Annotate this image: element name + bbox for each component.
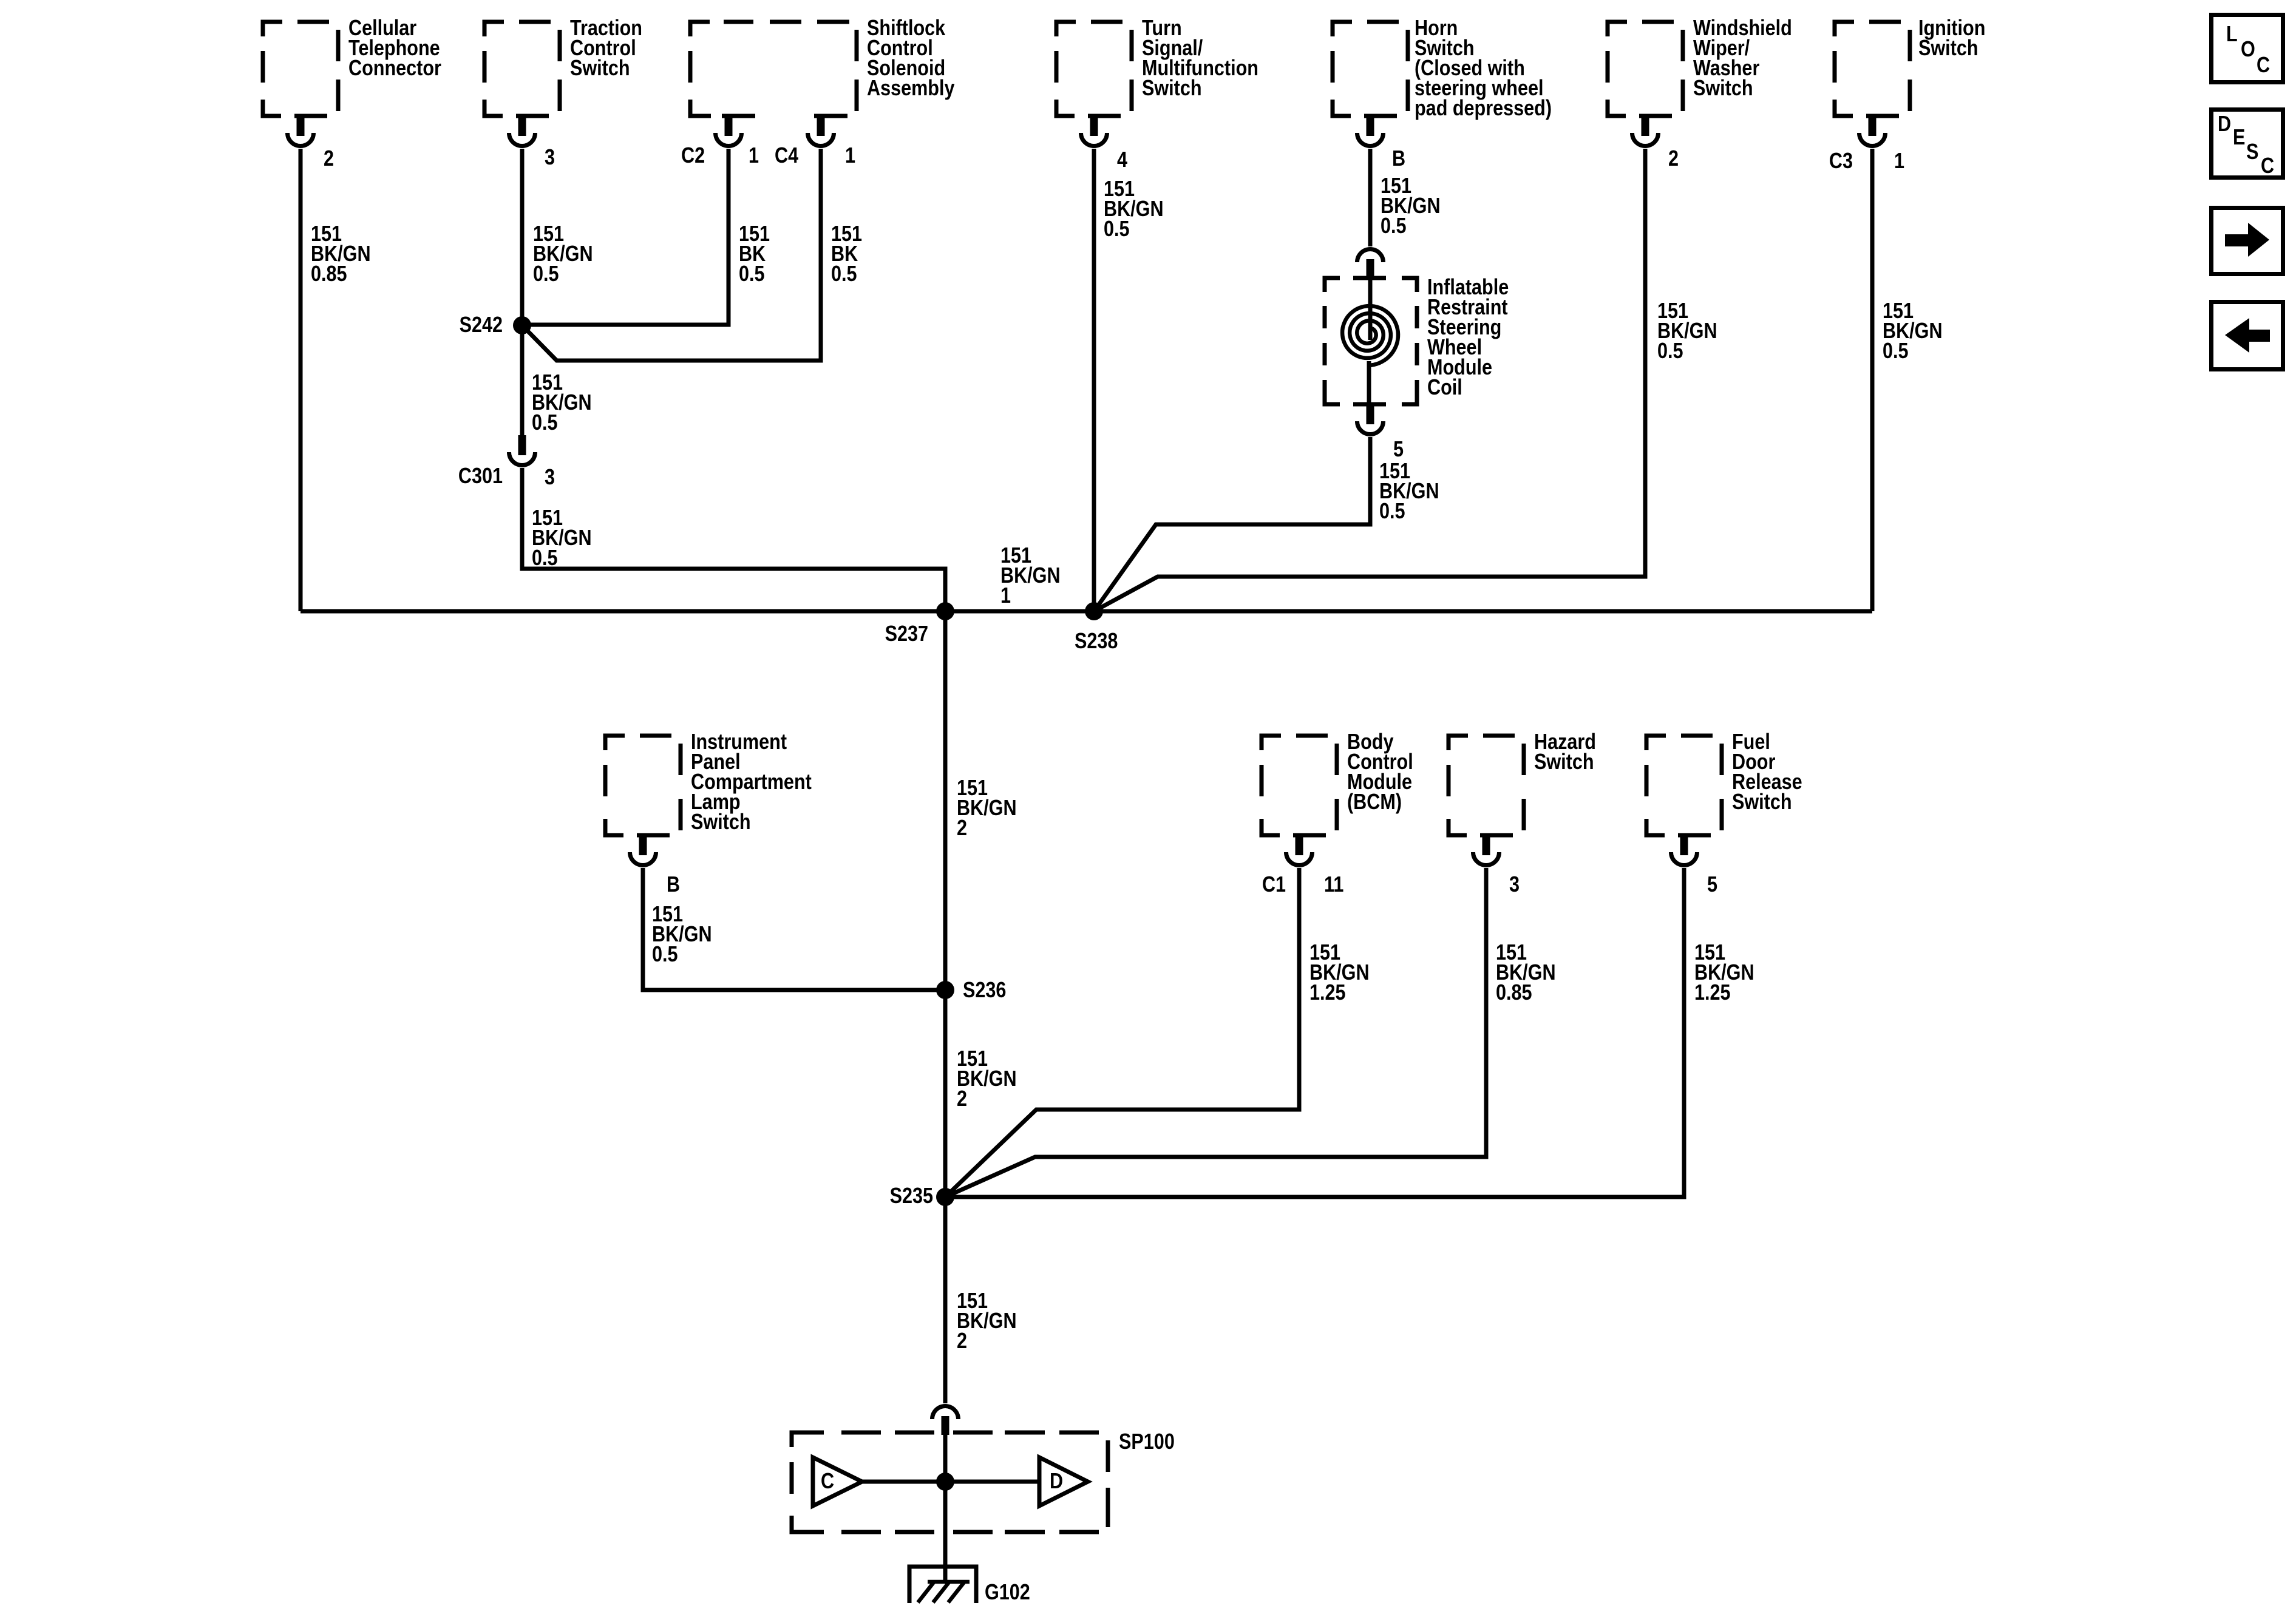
splice S235 — [890, 1184, 954, 1209]
wire: circuit 151 BK/GN 1.25 from BCM pin C1-11 to splice S235 — [945, 868, 1370, 1197]
svg-text:C: C — [2261, 154, 2274, 178]
splice S237 — [885, 602, 954, 646]
wire: circuit 151 BK/GN 0.5 from coil pin 5 to splice S238 — [1094, 437, 1439, 611]
svg-text:Assembly: Assembly — [867, 76, 955, 101]
legend icon: DESC box — [2212, 110, 2283, 178]
svg-text:2: 2 — [324, 147, 334, 171]
svg-text:3: 3 — [545, 466, 555, 490]
svg-text:0.5: 0.5 — [739, 262, 765, 286]
component box: Shiftlock Control Solenoid Assembly — [688, 16, 955, 118]
svg-text:5: 5 — [1393, 438, 1404, 462]
wire: from SP100 junction to ground G102 — [943, 1482, 948, 1582]
svg-text:0.5: 0.5 — [1104, 217, 1130, 242]
svg-text:Switch: Switch — [1142, 76, 1202, 101]
svg-text:0.5: 0.5 — [1883, 339, 1909, 364]
svg-text:D: D — [2218, 112, 2231, 137]
svg-text:2: 2 — [957, 816, 967, 841]
connector pin 5 of Fuel Door Release Switch — [1671, 834, 1718, 897]
connector pin C2-1 of Shiftlock Control Solenoid Assembly — [681, 115, 759, 168]
connector pin C1-11 of Body Control Module — [1262, 834, 1343, 897]
svg-text:Coil: Coil — [1427, 376, 1462, 400]
svg-text:0.5: 0.5 — [1379, 500, 1405, 524]
svg-text:E: E — [2233, 126, 2245, 150]
svg-text:1: 1 — [1894, 149, 1904, 174]
wire: circuit 151 BK 0.5 from Shiftlock C2 pin 1 to splice S242 — [522, 149, 770, 325]
wire: ground bus from Cellular corner through S237 and S238 to Ignition corner — [301, 609, 1872, 614]
svg-text:3: 3 — [545, 146, 555, 170]
connector pin 3 of Hazard Switch — [1473, 834, 1520, 897]
svg-text:Switch: Switch — [570, 56, 630, 81]
svg-text:Switch: Switch — [1534, 750, 1594, 775]
svg-text:C: C — [2257, 53, 2270, 78]
svg-text:C3: C3 — [1829, 149, 1853, 174]
wire: circuit 151 BK/GN 0.5 from connector C301 to splice S237 — [522, 468, 945, 611]
wire label: circuit 151 BK/GN 1 at splice S238 — [1000, 544, 1061, 608]
svg-text:O: O — [2241, 38, 2255, 62]
component box: Fuel Door Release Switch — [1645, 730, 1802, 838]
svg-text:D: D — [1050, 1470, 1063, 1494]
svg-text:1: 1 — [1000, 584, 1011, 608]
svg-text:2: 2 — [1668, 147, 1679, 171]
svg-text:2: 2 — [957, 1087, 967, 1111]
wire: circuit 151 BK/GN 0.85 from Cellular Telephone Connector pin 2 to splice S237 — [301, 149, 371, 611]
svg-text:G102: G102 — [985, 1581, 1030, 1605]
wire: circuit 151 BK/GN 0.5 from Turn Signal Switch pin 4 to splice S238 — [1094, 149, 1164, 611]
coil element inside Inflatable Restraint Steering Wheel Module Coil — [1342, 278, 1398, 404]
wire: internal bus of SP100 from terminal C to terminal D — [862, 1480, 1039, 1484]
svg-text:C301: C301 — [458, 464, 503, 489]
svg-text:0.5: 0.5 — [831, 262, 857, 286]
wire: circuit 151 BK/GN 0.5 from Instrument Panel Lamp Switch pin B to splice S236 — [643, 868, 945, 990]
svg-text:1: 1 — [845, 144, 855, 168]
svg-text:Switch: Switch — [1693, 76, 1753, 101]
svg-text:B: B — [1392, 147, 1405, 171]
svg-text:4: 4 — [1117, 148, 1127, 172]
connector pin C4-1 of Shiftlock Control Solenoid Assembly — [775, 115, 855, 168]
svg-text:Switch: Switch — [1732, 790, 1792, 815]
svg-text:S238: S238 — [1075, 629, 1118, 654]
svg-text:S242: S242 — [460, 313, 503, 337]
svg-text:pad depressed): pad depressed) — [1415, 97, 1552, 121]
component box: Cellular Telephone Connector — [261, 16, 441, 118]
component box: Instrument Panel Compartment Lamp Switch — [603, 730, 812, 838]
connector pin 2 of Cellular Telephone Connector — [288, 115, 335, 171]
wire: circuit 151 BK/GN 1.25 from Fuel Door Release Switch pin 5 to splice S235 — [945, 868, 1754, 1197]
svg-text:SP100: SP100 — [1119, 1430, 1175, 1454]
svg-text:0.85: 0.85 — [1496, 981, 1532, 1005]
svg-text:C4: C4 — [775, 144, 798, 168]
svg-text:Switch: Switch — [1918, 36, 1978, 61]
connector at top of splice pack SP100 — [932, 1406, 959, 1436]
wire: circuit 151 BK/GN 0.5 from splice S242 to connector C301 — [522, 325, 592, 435]
legend icon: left arrow box — [2212, 302, 2283, 370]
wire: circuit 151 BK/GN 0.5 from Horn Switch pin B to Inflatable Restraint coil — [1370, 149, 1441, 246]
connector pin B of Instrument Panel Compartment Lamp Switch — [630, 834, 681, 897]
svg-text:2: 2 — [957, 1329, 967, 1354]
ground G102 — [909, 1567, 1030, 1605]
svg-text:0.5: 0.5 — [1657, 339, 1683, 364]
component box: Turn Signal/Multifunction Switch — [1055, 16, 1258, 118]
svg-text:S237: S237 — [885, 622, 928, 646]
component box: splice pack SP100 — [790, 1430, 1175, 1534]
svg-text:S: S — [2246, 140, 2258, 164]
splice S236 — [936, 978, 1006, 1003]
component box: Body Control Module (BCM) — [1260, 730, 1413, 838]
connector at top of Inflatable Restraint Steering Wheel Module Coil — [1357, 249, 1384, 279]
component box: Hazard Switch — [1447, 730, 1596, 838]
wire: circuit 151 BK/GN 2 from splice S235 to splice pack SP100 — [945, 1197, 1017, 1403]
terminal C arrow inside SP100 — [813, 1457, 862, 1506]
svg-text:3: 3 — [1509, 873, 1520, 897]
svg-text:0.5: 0.5 — [652, 943, 678, 967]
svg-text:S235: S235 — [890, 1184, 933, 1209]
svg-text:L: L — [2226, 22, 2238, 47]
wire: circuit 151 BK/GN 0.85 from Hazard Switch pin 3 to splice S235 — [945, 868, 1556, 1197]
connector pin C3-1 of Ignition Switch — [1829, 115, 1904, 174]
svg-text:Switch: Switch — [691, 810, 751, 835]
svg-text:1.25: 1.25 — [1309, 981, 1346, 1005]
wire: circuit 151 BK/GN 2 from splice S237 to splice S236 — [945, 611, 1017, 990]
wire: circuit 151 BK 0.5 from Shiftlock C4 pin 1 to splice S242 — [522, 149, 862, 361]
junction inside SP100 — [936, 1473, 954, 1491]
wire: circuit 151 BK/GN 0.5 from Ignition Switch pin C3-1 to splice S238 — [1872, 149, 1943, 611]
svg-text:1.25: 1.25 — [1694, 981, 1731, 1005]
inline connector C301 pin 3 — [458, 435, 555, 490]
legend icon: right arrow box — [2212, 208, 2283, 274]
svg-text:Connector: Connector — [348, 56, 441, 81]
splice S242 — [460, 313, 531, 337]
svg-text:C2: C2 — [681, 144, 705, 168]
wire: circuit 151 BK/GN 0.5 from Windshield Wiper/Washer Switch pin 2 to splice S238 — [1094, 149, 1717, 611]
svg-text:0.5: 0.5 — [532, 546, 558, 571]
connector pin B of Horn Switch — [1357, 115, 1406, 171]
terminal D arrow inside SP100 — [1039, 1457, 1088, 1506]
component box: Horn Switch — [1331, 16, 1552, 121]
svg-text:1: 1 — [749, 144, 759, 168]
connector pin 4 of Turn Signal/Multifunction Switch — [1081, 115, 1128, 172]
connector pin 2 of Windshield Wiper/Washer Switch — [1632, 115, 1679, 171]
svg-text:0.85: 0.85 — [311, 262, 347, 286]
component box: Windshield Wiper/Washer Switch — [1606, 16, 1792, 118]
connector pin 5 of Inflatable Restraint Steering Wheel Module Coil — [1357, 403, 1404, 462]
wire: circuit 151 BK/GN 2 from splice S236 to splice S235 — [945, 990, 1017, 1197]
svg-text:S236: S236 — [963, 978, 1006, 1003]
svg-text:0.5: 0.5 — [532, 411, 558, 435]
legend icon: LOC box — [2212, 15, 2283, 83]
svg-text:5: 5 — [1707, 873, 1717, 897]
wire: from SP100 top connector to internal junction — [943, 1433, 948, 1482]
svg-text:C: C — [821, 1470, 834, 1494]
connector pin 3 of Traction Control Switch — [509, 115, 555, 170]
splice S238 — [1075, 602, 1118, 654]
wire: circuit 151 BK/GN 0.5 from Traction Control Switch pin 3 to splice S242 — [522, 149, 593, 325]
component box: Inflatable Restraint Steering Wheel Module Coil — [1323, 276, 1509, 407]
svg-text:B: B — [667, 873, 680, 897]
svg-text:0.5: 0.5 — [533, 262, 559, 286]
svg-text:11: 11 — [1324, 873, 1343, 897]
svg-text:0.5: 0.5 — [1381, 214, 1407, 239]
component box: Ignition Switch — [1833, 16, 1986, 118]
svg-text:(BCM): (BCM) — [1347, 790, 1402, 815]
svg-text:C1: C1 — [1262, 873, 1286, 897]
component box: Traction Control Switch — [483, 16, 642, 118]
